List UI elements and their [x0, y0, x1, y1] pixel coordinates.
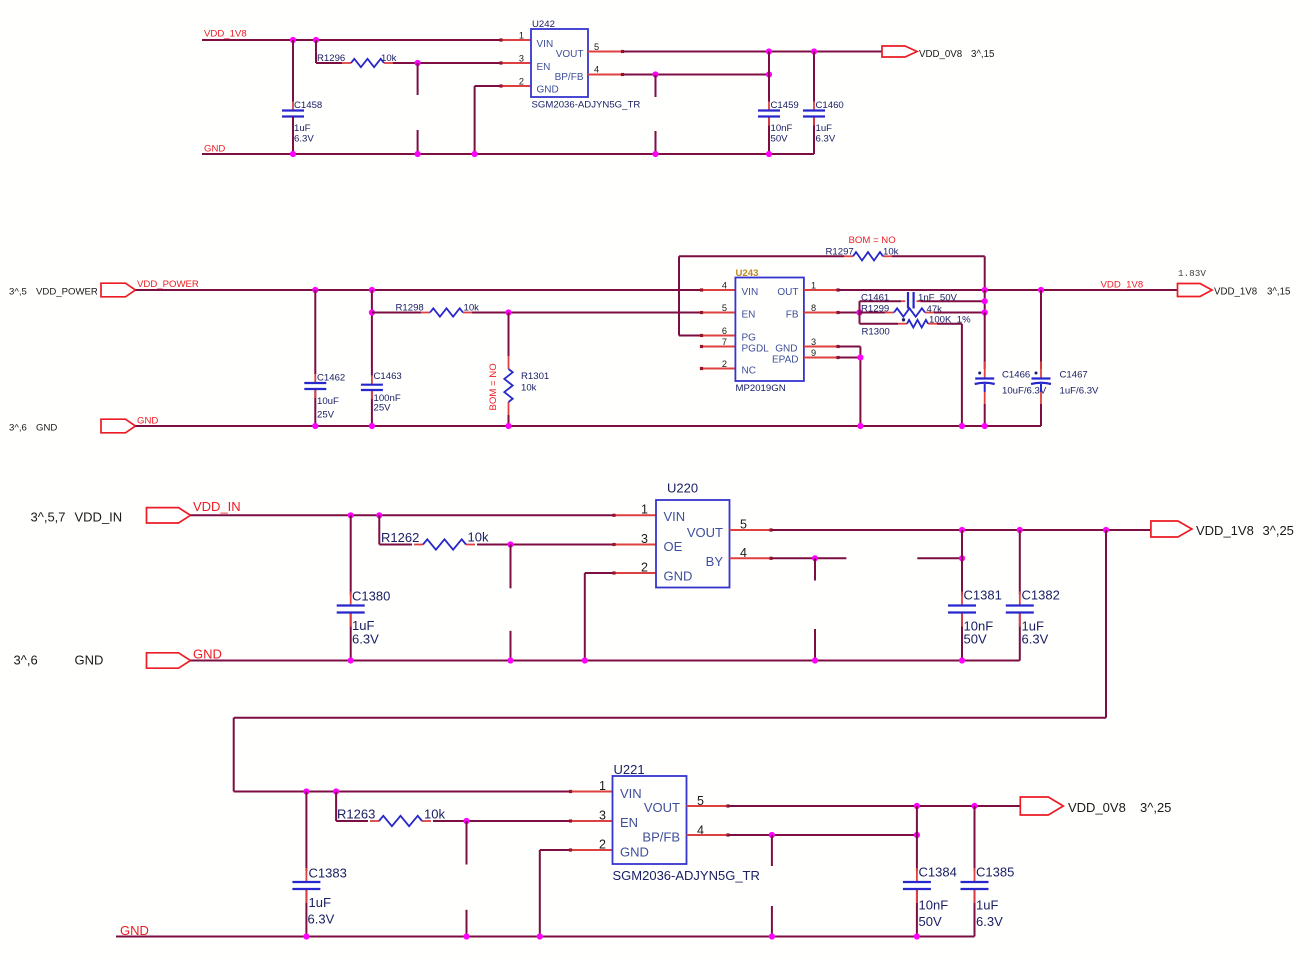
svg-text:10k: 10k — [424, 807, 445, 822]
junction GND/C1463 — [369, 423, 375, 429]
svg-text:GND: GND — [75, 653, 104, 668]
wire BP/FB net — [623, 74, 770, 76]
svg-text:VDD_0V8: VDD_0V8 — [1068, 800, 1126, 815]
svg-text:6: 6 — [722, 326, 727, 336]
svg-text:1uF: 1uF — [294, 123, 311, 134]
wire C1381 branch — [961, 530, 963, 661]
wire R1263 feed — [336, 792, 368, 822]
wire VIN rail block4 — [234, 791, 571, 793]
wire stub below R1262 lower — [510, 631, 512, 661]
junction VDD_1V8/R1296 — [313, 37, 319, 43]
pin 3 stub U242 EN — [501, 62, 531, 64]
capacitor C1385 symbol — [961, 868, 989, 903]
svg-text:EN: EN — [742, 310, 756, 321]
svg-text:3^,6: 3^,6 — [9, 423, 27, 434]
svg-text:C1458: C1458 — [294, 100, 322, 111]
wire stub below R1296 upper — [417, 63, 419, 95]
flag VDD_POWER input — [101, 283, 136, 297]
svg-text:OUT: OUT — [777, 287, 798, 298]
wire R1299 to vert — [934, 312, 985, 314]
junction EN/stub (block4) — [463, 818, 469, 824]
junction GND/stub4 — [812, 657, 818, 663]
svg-text:1.83V: 1.83V — [1178, 268, 1206, 279]
pin 3 stub U221 EN — [571, 820, 613, 822]
pin 2 stub U221 GND — [571, 849, 613, 851]
pin 5 stub U221 VOUT — [687, 805, 729, 807]
pin 1 stub U221 VIN — [571, 791, 613, 793]
wire BP/FB net block4 — [728, 834, 917, 836]
svg-text:10k: 10k — [468, 530, 489, 545]
svg-text:C1383: C1383 — [309, 866, 347, 881]
wire C1384 branch — [916, 806, 918, 937]
svg-text:VIN: VIN — [620, 786, 642, 801]
pin 3 stub U220 OE — [614, 544, 656, 546]
wire GND/EPAD tie — [838, 347, 860, 427]
svg-text:MP2019GN: MP2019GN — [736, 383, 786, 394]
svg-text:VDD_1V8: VDD_1V8 — [1196, 523, 1254, 538]
svg-text:C1466: C1466 — [1002, 370, 1030, 381]
wire stub below BY lower — [814, 629, 816, 661]
svg-text:U243: U243 — [736, 268, 759, 279]
junction GND/stub6 — [769, 933, 775, 939]
pin 8 stub U243 FB — [804, 312, 838, 314]
junction VOUT/C1459 — [766, 48, 772, 54]
wire stub below BY upper — [814, 558, 816, 580]
wire C1458 branch upper — [292, 40, 294, 102]
junction GND/C1384 — [914, 933, 920, 939]
wire C1459 branch — [768, 52, 770, 155]
capacitor C1462 symbol — [304, 374, 326, 398]
wire C1463 branch — [371, 290, 373, 426]
wire R1301 upper — [508, 313, 510, 357]
junction BP/FB at C1384 — [914, 832, 920, 838]
pin 4 stub U221 BP/FB — [687, 834, 729, 836]
svg-text:R1263: R1263 — [337, 807, 375, 822]
svg-text:2: 2 — [641, 561, 648, 575]
svg-text:EPAD: EPAD — [772, 355, 799, 366]
wire C1382 branch — [1019, 530, 1021, 661]
capacitor C1459 symbol — [758, 102, 780, 126]
svg-text:1uF: 1uF — [816, 123, 833, 134]
IC U243 body — [735, 278, 804, 382]
svg-text:C1382: C1382 — [1022, 588, 1060, 603]
svg-text:R1301: R1301 — [521, 371, 549, 382]
svg-text:C1380: C1380 — [352, 589, 390, 604]
pin 2 stub U220 GND — [614, 572, 656, 574]
junction VDD_IN/R1262 — [376, 512, 382, 518]
IC U242 body — [531, 29, 588, 97]
junction GND/C1383 — [303, 933, 309, 939]
wire stub below R1263 lower — [466, 910, 468, 937]
wire stub below BP/FB upper — [655, 75, 657, 98]
junction EN feed at C1463 — [369, 309, 375, 315]
svg-text:R1298: R1298 — [396, 303, 424, 314]
svg-text:VDD_IN: VDD_IN — [75, 510, 123, 525]
junction GND/U221 pin2 — [537, 933, 543, 939]
wire C1462 branch — [314, 290, 316, 426]
svg-text:GND: GND — [537, 85, 559, 96]
junction VIN/R1263 — [333, 788, 339, 794]
svg-text:6.3V: 6.3V — [352, 632, 379, 647]
svg-text:VDD_POWER: VDD_POWER — [137, 279, 199, 290]
wire GND rail block1 — [202, 153, 814, 155]
wire R1298 feed — [372, 312, 421, 314]
svg-text:GND: GND — [137, 416, 158, 427]
pin 4 stub U242 BP/FB — [588, 74, 623, 76]
junction OUT/R1297 — [982, 287, 988, 293]
capacitor C1467 symbol — [1031, 362, 1051, 405]
svg-text:R1262: R1262 — [381, 530, 419, 545]
wire R1262 to OE — [477, 544, 614, 546]
wire VDD_POWER rail — [136, 289, 702, 291]
junction C1461/vert — [982, 298, 988, 304]
svg-text:25V: 25V — [374, 403, 392, 414]
svg-text:6.3V: 6.3V — [294, 134, 314, 145]
capacitor C1380 symbol — [337, 592, 365, 627]
wire GND rail block2 — [136, 425, 1042, 427]
wire FB net — [838, 312, 860, 314]
svg-text:NC: NC — [742, 366, 756, 377]
svg-text:1: 1 — [599, 779, 606, 793]
wire C1466 branch — [984, 313, 986, 427]
capacitor C1381 symbol — [948, 592, 976, 627]
svg-text:6.3V: 6.3V — [976, 914, 1003, 929]
pin 4 stub U243 VIN — [702, 289, 736, 291]
svg-text:C1385: C1385 — [976, 865, 1014, 880]
svg-text:EN: EN — [537, 62, 551, 73]
svg-text:3: 3 — [641, 532, 648, 546]
junction OUT/C1467 — [1038, 287, 1044, 293]
junction GND/EPAD — [857, 423, 863, 429]
junction GND/C1462 — [312, 423, 318, 429]
wire U242 GND pin2 route — [475, 86, 501, 154]
capacitor C1463 symbol — [361, 376, 383, 399]
wire GND rail block4 — [116, 936, 975, 938]
resistor R1299 — [885, 308, 934, 316]
svg-text:SGM2036-ADJYN5G_TR: SGM2036-ADJYN5G_TR — [613, 868, 760, 883]
svg-text:6.3V: 6.3V — [308, 912, 335, 927]
wire R1263 to EN — [433, 820, 571, 822]
wire R1297 right leg — [892, 256, 985, 290]
svg-text:2: 2 — [722, 359, 727, 369]
wire U221 GND pin2 route — [540, 850, 571, 937]
wire R1301 lower — [508, 415, 510, 426]
wire R1296 feed — [316, 40, 342, 63]
wire C1461 branch — [860, 301, 985, 312]
svg-text:VDD_0V8: VDD_0V8 — [919, 49, 962, 60]
svg-text:6.3V: 6.3V — [1022, 632, 1049, 647]
wire C1460 branch — [813, 52, 815, 155]
svg-text:1uF: 1uF — [309, 895, 331, 910]
wire C1467 branch — [1040, 290, 1042, 426]
wire stub below R1296 lower — [417, 130, 419, 154]
svg-text:VDD_IN: VDD_IN — [193, 499, 241, 514]
pin 1 stub U243 OUT — [804, 289, 838, 291]
capacitor C1382 symbol — [1006, 592, 1034, 627]
svg-text:GND: GND — [620, 845, 649, 860]
junction EPAD tie — [857, 354, 863, 360]
junction VDD_POWER/C1463 — [369, 287, 375, 293]
junction GND/U242 pin2 — [472, 151, 478, 157]
svg-text:1nF 50V: 1nF 50V — [918, 292, 958, 303]
svg-text:SGM2036-ADJYN5G_TR: SGM2036-ADJYN5G_TR — [532, 100, 641, 111]
flag VDD_1V8 output (block2) — [1178, 284, 1213, 297]
svg-text:10k: 10k — [521, 383, 537, 394]
svg-text:GND: GND — [775, 344, 797, 355]
junction OE/stub — [507, 541, 513, 547]
wire VOUT net block4 — [728, 805, 1020, 807]
pin 7 stub U243 PGDL (n.c.) — [702, 346, 736, 348]
junction VIN/C1383 — [303, 788, 309, 794]
svg-text:C1467: C1467 — [1060, 370, 1088, 381]
svg-text:6.3V: 6.3V — [816, 134, 836, 145]
wire VOUT net to flag — [623, 51, 883, 53]
junction GND/C1466 — [982, 423, 988, 429]
wire R1300 branch — [860, 313, 899, 324]
svg-text:U242: U242 — [532, 19, 555, 30]
svg-text:VIN: VIN — [537, 39, 554, 50]
wire stub below R1262 upper — [510, 545, 512, 589]
svg-text:BOM = NO: BOM = NO — [849, 235, 896, 246]
svg-text:50V: 50V — [964, 632, 987, 647]
svg-text:PGDL: PGDL — [742, 344, 770, 355]
svg-text:BP/FB: BP/FB — [642, 830, 680, 845]
svg-text:3^,25: 3^,25 — [1263, 523, 1294, 538]
junction GND/stub3 — [507, 657, 513, 663]
svg-text:VOUT: VOUT — [556, 49, 584, 60]
wire C1383 branch — [305, 792, 307, 937]
svg-text:3^,6: 3^,6 — [14, 653, 38, 668]
wire stub below R1263 upper — [466, 821, 468, 865]
junction GND/R1300 — [959, 423, 965, 429]
wire R1297 left leg — [679, 256, 844, 335]
junction R1299/vert — [982, 309, 988, 315]
svg-text:VOUT: VOUT — [687, 525, 723, 540]
junction VOUT/C1381 — [959, 527, 965, 533]
junction VOUT/C1460 — [811, 48, 817, 54]
junction EN/stub — [415, 60, 421, 66]
junction BY stub — [812, 555, 818, 561]
svg-text:10nF: 10nF — [771, 123, 793, 134]
svg-text:3^,15: 3^,15 — [971, 49, 994, 60]
pin 1 stub U242 VIN — [501, 39, 531, 41]
resistor R1298 — [421, 308, 472, 316]
svg-text:C1381: C1381 — [964, 588, 1002, 603]
svg-text:3^,25: 3^,25 — [1140, 800, 1171, 815]
junction FB node — [856, 309, 862, 315]
pin 9 stub U243 EPAD — [804, 357, 838, 359]
svg-text:R1299: R1299 — [861, 303, 889, 314]
junction VOUT/C1382 — [1017, 527, 1023, 533]
pin 3 stub U243 GND — [804, 346, 838, 348]
svg-text:R1296: R1296 — [317, 53, 345, 64]
junction VDD_POWER/C1462 — [312, 287, 318, 293]
svg-text:BY: BY — [706, 554, 724, 569]
wire PG net — [679, 335, 702, 337]
pin 5 stub U242 VOUT — [588, 51, 623, 53]
capacitor C1383 symbol — [292, 868, 320, 903]
svg-text:VDD_1V8: VDD_1V8 — [1101, 280, 1144, 291]
svg-text:VIN: VIN — [742, 287, 759, 298]
junction BP/FB stub — [652, 71, 658, 77]
svg-text:C1460: C1460 — [816, 100, 844, 111]
pin 4 stub U220 BY — [730, 557, 772, 559]
svg-text:5: 5 — [722, 303, 727, 313]
svg-text:50V: 50V — [771, 134, 789, 145]
junction VDD_IN/C1380 — [348, 512, 354, 518]
resistor R1300 — [898, 320, 937, 328]
svg-text:U220: U220 — [667, 481, 698, 496]
wire R1262 feed — [379, 515, 412, 544]
flag VDD_0V8 output (block4) — [1020, 797, 1063, 815]
junction GND/C1459 — [766, 151, 772, 157]
svg-text:GND: GND — [664, 569, 693, 584]
resistor R1263 — [370, 816, 431, 826]
svg-text:GND: GND — [204, 144, 225, 155]
flag VDD_1V8 output (block3) — [1151, 521, 1192, 537]
wire R1299 feed — [860, 312, 886, 314]
svg-text:3^,15: 3^,15 — [1267, 287, 1290, 298]
resistor R1301 (BOM=NO) — [504, 356, 512, 415]
junction VOUT/C1385 — [971, 803, 977, 809]
svg-text:PG: PG — [742, 333, 757, 344]
wire OUT net to flag — [838, 289, 1178, 291]
IC U221 body — [613, 776, 687, 864]
svg-text:3: 3 — [519, 54, 524, 64]
wire VOUT net block3 — [771, 529, 1151, 531]
wire FB vertical tie — [984, 290, 986, 313]
pin 5 stub U220 VOUT — [730, 529, 772, 531]
wire C1458 branch lower — [292, 117, 294, 155]
svg-text:25V: 25V — [317, 410, 335, 421]
IC U220 body — [656, 500, 730, 588]
pin 5 stub U243 EN — [702, 312, 736, 314]
wire C1380 branch — [350, 515, 352, 660]
wire VDD_IN rail — [191, 514, 615, 516]
wire stub below BP/FB upper (blk4) — [771, 835, 773, 866]
capacitor C1384 symbol — [903, 868, 931, 903]
svg-text:3: 3 — [599, 809, 606, 823]
pin 1 stub U220 VIN — [614, 514, 656, 516]
junction VOUT/interconnect — [1103, 527, 1109, 533]
wire stub below BP/FB lower (blk4) — [771, 906, 773, 937]
svg-text:C1462: C1462 — [317, 373, 345, 384]
wire C1385 branch — [974, 806, 976, 937]
flag VDD_0V8 output (block1) — [882, 46, 917, 57]
svg-text:C1459: C1459 — [771, 100, 799, 111]
svg-text:VDD_1V8: VDD_1V8 — [1214, 287, 1257, 298]
svg-text:10k: 10k — [883, 247, 899, 258]
junction BP/FB at C1459 — [766, 71, 772, 77]
svg-text:R1297: R1297 — [826, 247, 854, 258]
wire R1300 to GND — [937, 324, 962, 426]
capacitor C1460 symbol — [803, 102, 825, 126]
wire U220 GND pin2 route — [585, 573, 614, 661]
flag GND input (block3) — [147, 653, 191, 668]
capacitor C1461 symbol (horizontal) — [901, 292, 920, 309]
junction GND/C1381 — [959, 657, 965, 663]
pin 2 stub U243 NC (n.c.) — [702, 368, 736, 370]
junction GND/stub5 — [463, 933, 469, 939]
resistor R1296 — [342, 59, 393, 67]
capacitor C1466 symbol — [975, 362, 995, 405]
svg-text:3^,5,7: 3^,5,7 — [31, 510, 66, 525]
junction GND/U220 pin2 — [582, 657, 588, 663]
capacitor C1458 symbol — [282, 102, 304, 126]
flag VDD_IN input — [147, 508, 191, 523]
svg-text:VDD_1V8: VDD_1V8 — [204, 29, 247, 40]
svg-text:10nF: 10nF — [919, 898, 949, 913]
svg-text:10uF: 10uF — [317, 396, 339, 407]
svg-text:C1463: C1463 — [374, 371, 402, 382]
junction VDD_1V8/C1458 — [290, 37, 296, 43]
svg-text:4: 4 — [722, 281, 727, 291]
flag GND input (block2) — [101, 419, 136, 433]
pin 2 stub U242 GND — [501, 85, 531, 87]
svg-text:BOM = NO: BOM = NO — [488, 363, 499, 410]
svg-text:1: 1 — [519, 31, 524, 41]
wire R1296 to EN — [393, 62, 501, 64]
resistor R1262 — [414, 539, 475, 549]
svg-text:C1384: C1384 — [919, 865, 957, 880]
svg-text:R1300: R1300 — [862, 327, 890, 338]
junction BP/FB stub (block4) — [769, 832, 775, 838]
svg-text:OE: OE — [664, 539, 683, 554]
svg-text:1uF/6.3V: 1uF/6.3V — [1060, 386, 1100, 397]
svg-text:50V: 50V — [919, 914, 942, 929]
svg-text:VIN: VIN — [664, 509, 686, 524]
wire BY net segment B — [917, 557, 962, 559]
resistor R1297 (BOM=NO) — [844, 252, 892, 260]
junction GND/R1301 — [505, 423, 511, 429]
wire interconnect to U221 — [234, 530, 1106, 792]
junction GND/stub2 — [652, 151, 658, 157]
svg-text:VOUT: VOUT — [644, 800, 680, 815]
svg-text:BP/FB: BP/FB — [555, 72, 584, 83]
svg-text:4: 4 — [594, 65, 599, 75]
svg-text:GND: GND — [193, 647, 222, 662]
wire GND rail block3 — [191, 660, 1020, 662]
svg-text:7: 7 — [722, 337, 727, 347]
junction GND/C1380 — [348, 657, 354, 663]
svg-text:C1461: C1461 — [861, 292, 889, 303]
junction GND/stub1 — [415, 151, 421, 157]
svg-text:VDD_POWER: VDD_POWER — [36, 287, 98, 298]
svg-text:2: 2 — [599, 838, 606, 852]
svg-text:1uF: 1uF — [976, 898, 998, 913]
svg-text:1: 1 — [641, 503, 648, 517]
svg-text:FB: FB — [786, 310, 799, 321]
junction EN/R1301 — [505, 309, 511, 315]
svg-text:2: 2 — [519, 77, 524, 87]
wire stub below BP/FB lower — [655, 131, 657, 154]
wire R1298 to EN — [472, 312, 702, 314]
pin 6 stub U243 PG — [702, 335, 736, 337]
junction BY at C1381 — [959, 555, 965, 561]
junction GND/C1458 — [290, 151, 296, 157]
polarity dot R1300 — [902, 318, 905, 321]
svg-text:3^,5: 3^,5 — [9, 287, 27, 298]
svg-text:GND: GND — [36, 423, 57, 434]
svg-text:EN: EN — [620, 815, 638, 830]
junction VOUT/C1384 — [914, 803, 920, 809]
wire VDD_1V8 rail — [202, 39, 501, 41]
svg-text:U221: U221 — [614, 762, 645, 777]
wire BY net segment A — [771, 557, 846, 559]
